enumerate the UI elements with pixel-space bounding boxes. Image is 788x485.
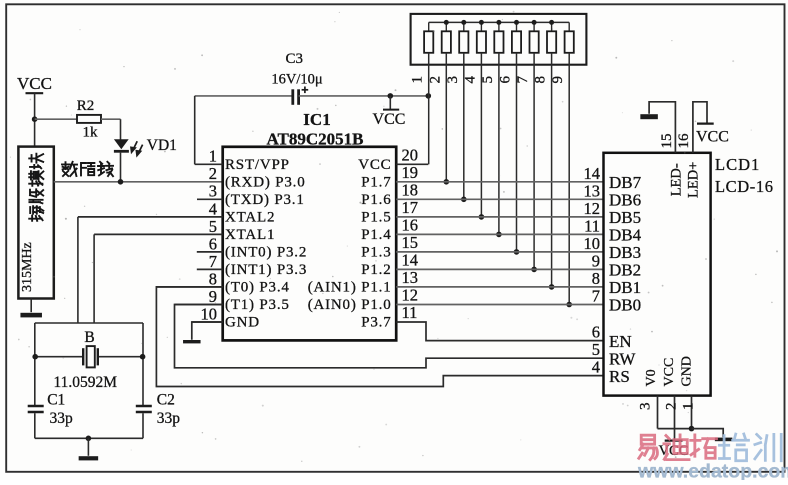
svg-text:www.edatop.com: www.edatop.com bbox=[637, 461, 788, 481]
svg-text:(AIN0) P1.0: (AIN0) P1.0 bbox=[308, 297, 392, 313]
wire data line P1.2/DB2 bbox=[396, 268, 603, 270]
node pull-up to data line 6 bbox=[461, 197, 467, 203]
svg-text:XTAL2: XTAL2 bbox=[225, 210, 275, 226]
wire LCD GND to ground bbox=[692, 429, 724, 438]
node VCC tap bbox=[388, 93, 394, 99]
label glyph 数 bbox=[62, 162, 77, 176]
wire RS: P3.4 to LCD RS bbox=[156, 287, 603, 387]
wire VCC junction to R2 bbox=[35, 118, 77, 120]
wire data line: module to IC pin 2 bbox=[54, 181, 223, 183]
svg-text:(INT0) P3.2: (INT0) P3.2 bbox=[225, 245, 307, 261]
power VCC bar (top-left) bbox=[26, 92, 44, 94]
node resnet bus R6 bbox=[514, 20, 519, 25]
svg-text:XTAL1: XTAL1 bbox=[225, 227, 275, 243]
ground (module) bbox=[20, 313, 42, 318]
wire data line P1.6/DB6 bbox=[396, 198, 603, 200]
op LCD1 module body bbox=[604, 153, 711, 396]
wire IC pin 9 stub bbox=[175, 304, 223, 306]
wire crystal bottom rail bbox=[35, 437, 143, 439]
node resnet bus R2 bbox=[444, 20, 449, 25]
wire resnet pin3 lead down bbox=[463, 53, 465, 200]
wire crystal left lead bbox=[35, 356, 82, 358]
node crystal ground junction bbox=[86, 436, 92, 442]
label glyph 收 (rotated) bbox=[29, 189, 43, 203]
svg-text:13: 13 bbox=[584, 181, 601, 200]
label glyph 块 (rotated) bbox=[29, 154, 43, 169]
svg-text:2: 2 bbox=[209, 164, 217, 183]
wire resnet common bus bbox=[429, 21, 569, 23]
wire resnet pin5 lead down bbox=[498, 53, 500, 235]
wire VD1 cathode down to data line bbox=[120, 153, 122, 182]
svg-text:P1.2: P1.2 bbox=[361, 262, 391, 278]
svg-text:5: 5 bbox=[209, 217, 217, 236]
node pull-up to data line 4 bbox=[496, 232, 502, 238]
resistor network R8 body bbox=[547, 31, 556, 53]
node crystal left bbox=[32, 354, 38, 360]
node pull-up to data line 5 bbox=[479, 214, 485, 220]
wire right rail lower bbox=[142, 413, 144, 438]
resistor network R3 body bbox=[459, 31, 468, 53]
svg-text:LCD-16: LCD-16 bbox=[715, 177, 774, 196]
svg-text:(T0) P3.4: (T0) P3.4 bbox=[225, 280, 290, 296]
svg-text:P1.6: P1.6 bbox=[361, 192, 391, 208]
wire resnet pin6 lead down bbox=[516, 53, 518, 252]
svg-text:1: 1 bbox=[680, 403, 696, 411]
svg-text:RST/VPP: RST/VPP bbox=[225, 157, 290, 173]
wire resnet R4 top lead bbox=[480, 22, 482, 31]
svg-text:4: 4 bbox=[592, 358, 600, 377]
svg-text:LED+: LED+ bbox=[686, 162, 702, 198]
svg-text:8: 8 bbox=[209, 269, 217, 288]
svg-text:16V/10μ: 16V/10μ bbox=[271, 72, 323, 88]
svg-text:4: 4 bbox=[462, 76, 478, 84]
svg-text:16: 16 bbox=[676, 133, 692, 149]
label glyph 据 bbox=[81, 163, 94, 175]
wire XTAL2 down bbox=[77, 217, 79, 323]
wire resnet R6 top lead bbox=[516, 22, 518, 31]
svg-text:LED-: LED- bbox=[669, 163, 685, 196]
capacitor C2 bbox=[136, 405, 152, 408]
svg-text:VCC: VCC bbox=[696, 129, 729, 146]
wire LCD pin 1 stub bbox=[691, 396, 693, 429]
power VCC bar (center) bbox=[383, 109, 399, 111]
wire resnet pin8 lead down bbox=[551, 53, 553, 287]
wire resnet pin1 lead to VCC bus bbox=[428, 53, 430, 165]
svg-text:DB6: DB6 bbox=[609, 191, 641, 210]
svg-text:C2: C2 bbox=[157, 392, 175, 409]
resistor network R4 body bbox=[477, 31, 486, 53]
wire IC pin 5 stub bbox=[94, 233, 223, 235]
svg-text:18: 18 bbox=[402, 180, 419, 199]
wire IC pin 20 stub bbox=[396, 163, 428, 165]
wire VCC tap stub bbox=[389, 96, 391, 109]
resistor network R5 body bbox=[494, 31, 503, 53]
wire IC pin 4 stub bbox=[78, 216, 223, 218]
svg-text:8: 8 bbox=[592, 269, 600, 288]
svg-text:3: 3 bbox=[209, 182, 217, 201]
wire GND pin 10 bbox=[192, 322, 223, 340]
svg-text:P1.3: P1.3 bbox=[361, 245, 391, 261]
wire data line P1.0/DB0 bbox=[396, 304, 603, 306]
svg-text:20: 20 bbox=[402, 145, 419, 164]
label glyph 接 (rotated) bbox=[29, 206, 43, 221]
svg-text:(TXD) P3.1: (TXD) P3.1 bbox=[225, 192, 305, 208]
node data-line junction bbox=[118, 179, 124, 185]
svg-text:R2: R2 bbox=[77, 98, 95, 114]
svg-text:EN: EN bbox=[609, 332, 632, 351]
svg-text:33p: 33p bbox=[157, 410, 181, 427]
resistor network R7 body bbox=[530, 31, 539, 53]
capacitor C3 plates bbox=[291, 89, 294, 105]
svg-text:P1.7: P1.7 bbox=[361, 174, 391, 190]
svg-text:GND: GND bbox=[225, 315, 260, 331]
ground (IC pin 10) bbox=[183, 340, 201, 343]
wire resnet R5 top lead bbox=[498, 22, 500, 31]
svg-text:19: 19 bbox=[402, 163, 419, 182]
svg-text:12: 12 bbox=[402, 286, 419, 305]
node resnet bus R4 bbox=[479, 20, 484, 25]
diode VD1 (LED) triangle bbox=[114, 139, 129, 149]
capacitor C1 bbox=[28, 405, 44, 408]
wire data line P1.7/DB7 bbox=[396, 181, 603, 183]
node resnet bus R8 bbox=[549, 20, 554, 25]
wire resnet pin7 lead down bbox=[533, 53, 535, 270]
wire RW: P3.5 to LCD RW bbox=[175, 305, 604, 368]
diode VD1 cathode bar bbox=[114, 150, 129, 153]
svg-text:6: 6 bbox=[498, 76, 514, 84]
wire resnet pin2 lead down bbox=[445, 53, 447, 182]
svg-text:DB2: DB2 bbox=[609, 261, 641, 280]
svg-text:6: 6 bbox=[592, 323, 600, 342]
svg-text:C3: C3 bbox=[285, 51, 303, 67]
power VCC bar (LCD pin2) bbox=[665, 440, 683, 442]
svg-text:16: 16 bbox=[402, 215, 419, 234]
module 315MHz receiver box bbox=[18, 147, 53, 299]
wire IC pin 6 stub bbox=[197, 251, 223, 253]
svg-text:11: 11 bbox=[402, 303, 418, 322]
resistor network R9 body bbox=[565, 31, 574, 53]
wire right rail upper bbox=[142, 323, 144, 406]
svg-text:(INT1) P3.3: (INT1) P3.3 bbox=[225, 262, 307, 278]
svg-text:(RXD) P3.0: (RXD) P3.0 bbox=[225, 174, 306, 190]
svg-text:P1.5: P1.5 bbox=[361, 210, 391, 226]
svg-text:C1: C1 bbox=[47, 392, 65, 409]
svg-text:2: 2 bbox=[664, 403, 680, 411]
svg-text:RW: RW bbox=[609, 349, 636, 368]
wire LCD pin 3 stub bbox=[657, 396, 659, 429]
op IC1 AT89C2051B body bbox=[223, 147, 397, 341]
wire data line P1.3/DB3 bbox=[396, 251, 603, 253]
svg-text:4: 4 bbox=[209, 199, 217, 218]
svg-text:15: 15 bbox=[659, 134, 675, 149]
wire resnet R2 top lead bbox=[445, 22, 447, 31]
wire IC pin 7 stub bbox=[197, 268, 223, 270]
svg-text:8: 8 bbox=[533, 76, 549, 84]
svg-text:3: 3 bbox=[445, 76, 461, 84]
C3 plus sign bbox=[302, 89, 309, 91]
svg-text:AT89C2051B: AT89C2051B bbox=[267, 129, 364, 148]
svg-text:315MHz: 315MHz bbox=[20, 242, 35, 292]
wire C3 left lead bbox=[195, 95, 292, 97]
node resnet pin1 / VCC bus junction bbox=[426, 93, 432, 99]
wire VCC to module top bbox=[34, 93, 36, 146]
wire crystal right lead bbox=[99, 356, 143, 358]
wire LCD pin 15 (LED-) to ground bbox=[649, 102, 675, 153]
svg-text:7: 7 bbox=[592, 287, 600, 306]
node pull-up to data line 7 bbox=[444, 179, 450, 185]
wire left rail upper bbox=[34, 323, 36, 406]
wire LCD pin 2 to VCC bbox=[674, 396, 676, 440]
svg-text:7: 7 bbox=[209, 252, 217, 271]
svg-text:3: 3 bbox=[638, 403, 654, 411]
svg-text:DB3: DB3 bbox=[609, 243, 641, 262]
svg-text:5: 5 bbox=[592, 340, 600, 359]
svg-text:11: 11 bbox=[584, 216, 600, 235]
wire resnet R3 top lead bbox=[463, 22, 465, 31]
svg-text:14: 14 bbox=[402, 250, 419, 269]
wire R2 to VD1 corner bbox=[101, 118, 121, 120]
svg-text:1: 1 bbox=[209, 147, 217, 166]
svg-text:33p: 33p bbox=[50, 410, 74, 427]
svg-text:B: B bbox=[84, 329, 94, 346]
svg-text:9: 9 bbox=[592, 251, 600, 270]
power VCC bar (LED+) bbox=[697, 122, 714, 124]
svg-text:1: 1 bbox=[410, 76, 426, 84]
wire resnet pin9 lead down bbox=[568, 53, 570, 305]
wire resnet R9 top lead bbox=[568, 22, 570, 31]
svg-text:DB7: DB7 bbox=[609, 173, 642, 192]
wire C3 left down to pin 1 bbox=[194, 96, 196, 164]
svg-text:DB5: DB5 bbox=[609, 208, 641, 227]
svg-text:11.0592M: 11.0592M bbox=[54, 374, 118, 391]
ground (crystal) bbox=[79, 456, 99, 460]
svg-text:V0: V0 bbox=[644, 369, 659, 386]
crystal B bbox=[82, 348, 84, 365]
node GND/V0 junction bbox=[689, 426, 695, 432]
svg-text:P1.4: P1.4 bbox=[361, 227, 391, 243]
svg-text:DB1: DB1 bbox=[609, 278, 641, 297]
wire left rail lower bbox=[34, 413, 36, 438]
svg-text:2: 2 bbox=[427, 76, 443, 84]
wire data line P1.1/DB1 bbox=[396, 286, 603, 288]
node resnet bus R7 bbox=[532, 20, 537, 25]
svg-text:10: 10 bbox=[201, 304, 218, 323]
wire XTAL1 down bbox=[93, 234, 95, 323]
svg-text:P3.7: P3.7 bbox=[361, 315, 391, 331]
wire resnet R1 top lead bbox=[428, 22, 430, 31]
wire resnet R7 top lead bbox=[533, 22, 535, 31]
wire IC pin 3 stub bbox=[197, 198, 223, 200]
wire data line P1.4/DB4 bbox=[396, 233, 603, 235]
ground (LCD) bbox=[715, 438, 733, 442]
node pull-up to data line 1 bbox=[549, 284, 555, 290]
wire LCD pin 16 (LED+) to VCC bbox=[693, 102, 707, 153]
svg-text:14: 14 bbox=[584, 164, 601, 183]
svg-text:VCC: VCC bbox=[358, 157, 391, 173]
svg-text:13: 13 bbox=[402, 268, 419, 287]
svg-text:VCC: VCC bbox=[662, 358, 677, 387]
node VCC/R2 junction bbox=[32, 116, 38, 122]
wire IC pin 1 stub bbox=[195, 163, 223, 165]
node resnet bus R5 bbox=[496, 20, 501, 25]
svg-text:RS: RS bbox=[609, 367, 630, 386]
node resnet bus R3 bbox=[461, 20, 466, 25]
ground (LED-) bbox=[640, 114, 658, 119]
wire resnet R8 top lead bbox=[551, 22, 553, 31]
svg-text:VCC: VCC bbox=[373, 111, 406, 128]
svg-text:1k: 1k bbox=[83, 125, 99, 141]
wire IC pin 8 stub bbox=[156, 286, 222, 288]
wire V0-GND tie bbox=[658, 428, 692, 430]
node pull-up to data line 2 bbox=[531, 267, 537, 273]
wire resnet pin4 lead down bbox=[480, 53, 482, 217]
watermark 易迪拓培训 bbox=[639, 435, 658, 459]
resistor network R6 body bbox=[512, 31, 521, 53]
svg-text:DB0: DB0 bbox=[609, 296, 641, 315]
svg-text:5: 5 bbox=[480, 76, 496, 84]
svg-text:10: 10 bbox=[584, 234, 601, 253]
svg-text:GND: GND bbox=[679, 356, 694, 386]
svg-text:LCD1: LCD1 bbox=[715, 155, 760, 174]
node pull-up to data line 3 bbox=[514, 249, 520, 255]
diode VD1 arrows bbox=[131, 141, 143, 155]
node pull-up to data line 0 bbox=[566, 302, 572, 308]
svg-text:VD1: VD1 bbox=[147, 137, 177, 154]
resistor network box bbox=[411, 14, 587, 65]
svg-text:9: 9 bbox=[550, 76, 566, 84]
wire crystal top rail bbox=[35, 322, 143, 324]
label glyph 模 (rotated) bbox=[29, 171, 43, 186]
node crystal right bbox=[140, 354, 146, 360]
resistor R2 body bbox=[77, 115, 101, 123]
resistor network R2 body bbox=[442, 31, 451, 53]
resistor network R1 body bbox=[424, 31, 433, 53]
svg-text:6: 6 bbox=[209, 234, 217, 253]
label glyph 线 bbox=[98, 162, 113, 176]
svg-text:(T1) P3.5: (T1) P3.5 bbox=[225, 297, 290, 313]
wire to crystal ground bbox=[87, 438, 89, 456]
wire down to VD1 anode bbox=[120, 119, 122, 139]
svg-text:VCC: VCC bbox=[17, 74, 52, 93]
svg-text:15: 15 bbox=[402, 233, 419, 252]
wire module to ground bbox=[30, 299, 32, 313]
wire data line P1.5/DB5 bbox=[396, 216, 603, 218]
wire IC pin 10 stub bbox=[192, 321, 223, 323]
svg-text:7: 7 bbox=[515, 76, 531, 84]
svg-text:(AIN1) P1.1: (AIN1) P1.1 bbox=[308, 280, 392, 296]
wire C3 right to VCC bus bbox=[299, 95, 429, 97]
svg-text:IC1: IC1 bbox=[303, 110, 330, 129]
wire EN: P3.7 to LCD EN bbox=[396, 322, 603, 341]
svg-text:17: 17 bbox=[402, 198, 419, 217]
svg-text:12: 12 bbox=[584, 199, 601, 218]
svg-text:DB4: DB4 bbox=[609, 226, 642, 245]
